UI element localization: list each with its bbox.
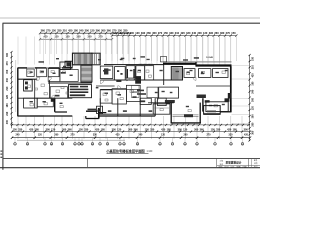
top dimension chain A line (40, 32, 131, 34)
labels above right wall (194, 57, 199, 59)
room left of big bay (153, 104, 170, 114)
right mid dark cluster (197, 95, 206, 99)
svg-text:270: 270 (226, 31, 231, 35)
lower middle room 2 (158, 98, 167, 105)
svg-text:150: 150 (164, 31, 169, 35)
lower middle room 1 (140, 98, 151, 104)
svg-text:120: 120 (135, 31, 140, 35)
title block cell borders (216, 158, 218, 167)
svg-text:比例: 比例 (254, 165, 258, 168)
svg-text:210: 210 (63, 28, 68, 32)
svg-text:360: 360 (152, 31, 157, 35)
left unit lower room 2 (37, 98, 53, 107)
svg-text:120: 120 (51, 128, 56, 131)
svg-text:120: 120 (38, 134, 43, 137)
svg-text:270: 270 (206, 134, 211, 137)
svg-text:240: 240 (79, 28, 84, 32)
svg-text:330: 330 (150, 128, 155, 131)
right bottom wall (220, 111, 232, 113)
entry canopy box (161, 57, 167, 62)
left unit lower room 1 (24, 98, 38, 108)
svg-text:150: 150 (6, 69, 9, 74)
svg-text:420: 420 (95, 128, 100, 131)
svg-text:3: 3 (120, 144, 121, 146)
left unit bathroom (24, 80, 33, 91)
svg-text:2: 2 (107, 144, 108, 146)
left unit lower dark corner (51, 98, 55, 102)
svg-text:390: 390 (96, 28, 101, 32)
svg-text:9: 9 (92, 144, 93, 146)
core labels cluster (69, 85, 92, 98)
svg-text:1: 1 (215, 144, 216, 146)
dark shaft west of kitchen (104, 68, 108, 74)
svg-text:300: 300 (85, 28, 90, 32)
bottom dimension chain 2 line (12, 131, 250, 133)
svg-text:210: 210 (6, 86, 9, 91)
left secondary extension line (15, 60, 17, 112)
svg-text:420: 420 (227, 128, 232, 131)
top dimension ticks chain A (39, 32, 41, 34)
entrance porch below stair (85, 116, 87, 119)
svg-text:260: 260 (214, 31, 219, 35)
bath room block C (126, 66, 135, 78)
svg-text:210: 210 (251, 65, 254, 70)
svg-text:260: 260 (194, 128, 199, 131)
svg-text:1: 1 (15, 144, 16, 146)
svg-text:240: 240 (192, 31, 197, 35)
svg-text:390: 390 (251, 114, 254, 119)
svg-text:300: 300 (178, 128, 183, 131)
corridor east wall (163, 65, 165, 85)
big south bay walls (170, 103, 172, 124)
svg-text:某某建筑设计: 某某建筑设计 (225, 160, 241, 164)
right mid rooms wall (196, 85, 231, 87)
svg-text:120: 120 (90, 28, 95, 32)
rooms west of stair upper (60, 62, 71, 70)
svg-text:7: 7 (172, 144, 173, 146)
right rooms row2 box (206, 102, 228, 112)
svg-text:150: 150 (52, 28, 57, 32)
room fixtures fine detail (28, 71, 31, 73)
top dimension chain A2 line (40, 38, 112, 40)
svg-text:120: 120 (161, 134, 166, 137)
svg-text:360: 360 (107, 28, 112, 32)
svg-text:420: 420 (44, 36, 49, 39)
svg-text:150: 150 (231, 31, 236, 35)
svg-text:330: 330 (93, 134, 98, 137)
right unit east corner block (228, 93, 232, 99)
svg-text:270: 270 (99, 36, 104, 39)
lower middle dark corner (165, 100, 175, 103)
drawing frame top border (3, 22, 261, 24)
grid extension lines above plan (39, 33, 41, 54)
svg-text:9: 9 (197, 144, 198, 146)
svg-text:120: 120 (203, 31, 208, 35)
svg-text:330: 330 (84, 128, 89, 131)
svg-text:240: 240 (16, 134, 21, 137)
stair tower lower flight (81, 65, 92, 82)
svg-text:210: 210 (175, 31, 180, 35)
room block D (136, 66, 145, 80)
left unit interior wall (18, 78, 38, 80)
title strip divider (87, 158, 89, 167)
svg-text:日期: 日期 (254, 162, 258, 165)
svg-text:300: 300 (251, 97, 254, 102)
bottom dimension chain 3 line (12, 137, 250, 139)
right rooms row2 corners (205, 100, 210, 102)
svg-text:390: 390 (209, 31, 214, 35)
zone top wall right of center (148, 102, 174, 104)
svg-text:330: 330 (216, 128, 221, 131)
kitchen room block A (100, 66, 113, 78)
svg-text:330: 330 (6, 78, 9, 83)
bottom chain 2 ticks (11, 131, 13, 133)
left margin tiny notes (0, 151, 2, 152)
svg-text:390: 390 (77, 36, 82, 39)
svg-text:3: 3 (45, 144, 46, 146)
svg-text:260: 260 (54, 134, 59, 137)
upper small text labels (39, 61, 45, 63)
column grid lines (17, 37, 19, 65)
svg-text:2: 2 (231, 144, 232, 146)
svg-text:1:100: 1:100 (147, 151, 153, 153)
duct shaft beside stair (65, 61, 72, 67)
svg-text:420: 420 (251, 73, 254, 78)
right stair hatch (171, 67, 182, 81)
svg-text:180: 180 (74, 28, 79, 32)
svg-text:8: 8 (185, 144, 186, 146)
svg-text:180: 180 (167, 128, 172, 131)
core top wall (48, 82, 92, 84)
svg-text:图号: 图号 (254, 159, 258, 162)
svg-text:360: 360 (41, 28, 46, 32)
room block E (145, 66, 154, 80)
right wing top wall thin rail (163, 61, 232, 63)
center lower verticals (99, 98, 101, 112)
svg-text:270: 270 (6, 61, 9, 66)
svg-text:240: 240 (6, 111, 9, 116)
svg-text:7: 7 (79, 144, 80, 146)
svg-text:240: 240 (251, 89, 254, 94)
svg-text:3: 3 (242, 144, 243, 146)
svg-text:420: 420 (68, 28, 73, 32)
right unit room 2 (213, 69, 229, 78)
left unit mid wall (18, 97, 73, 99)
svg-text:420: 420 (6, 94, 9, 99)
svg-text:180: 180 (66, 36, 71, 39)
svg-text:360: 360 (251, 130, 254, 135)
svg-text:300: 300 (6, 120, 9, 125)
door swing arcs (37, 78, 40, 81)
bottom dimension chain 1 line (12, 124, 250, 126)
svg-text:工程: 工程 (220, 160, 224, 163)
middle corridor wall (100, 79, 171, 81)
left unit outer west wall (17, 68, 19, 116)
title strip bottom line / frame bottom (0, 167, 260, 169)
svg-text:260: 260 (128, 128, 133, 131)
left dimension chain line (11, 52, 13, 128)
elevator shaft (135, 76, 141, 84)
svg-text:360: 360 (134, 128, 139, 131)
svg-text:260: 260 (184, 134, 189, 137)
bottom auxiliary line (17, 139, 125, 141)
svg-text:150: 150 (13, 128, 18, 131)
svg-text:2: 2 (27, 144, 28, 146)
right dimension ticks (249, 54, 251, 56)
center lower horizontal (99, 113, 155, 115)
svg-text:180: 180 (101, 128, 106, 131)
svg-text:150: 150 (79, 128, 84, 131)
svg-text:120: 120 (251, 106, 254, 111)
svg-text:260: 260 (147, 31, 152, 35)
svg-text:330: 330 (229, 134, 234, 137)
svg-text:270: 270 (70, 134, 75, 137)
svg-text:420: 420 (161, 128, 166, 131)
svg-text:名称: 名称 (220, 163, 224, 166)
svg-text:260: 260 (101, 28, 106, 32)
svg-text:180: 180 (186, 31, 191, 35)
svg-text:300: 300 (197, 31, 202, 35)
svg-text:420: 420 (116, 134, 121, 137)
svg-text:5: 5 (62, 144, 63, 146)
svg-text:6: 6 (160, 144, 161, 146)
drawing title underline (107, 152, 149, 154)
svg-text:300: 300 (46, 128, 51, 131)
drawing frame left border (2, 23, 4, 170)
svg-text:270: 270 (158, 31, 163, 35)
title strip top line (3, 157, 260, 159)
svg-text:120: 120 (183, 128, 188, 131)
svg-text:420: 420 (29, 128, 34, 131)
right unit room 1 (199, 69, 211, 78)
entrance wall segments (86, 110, 98, 112)
big bay railing lines (173, 114, 199, 116)
right wing top wall west part (163, 63, 196, 65)
right rooms window lines (207, 110, 216, 112)
svg-text:小高层住宅楼标准层平面图: 小高层住宅楼标准层平面图 (105, 148, 144, 153)
svg-text:420: 420 (180, 31, 185, 35)
svg-text:330: 330 (57, 28, 62, 32)
svg-text:360: 360 (68, 128, 73, 131)
right wing step connector (195, 62, 197, 67)
stair tower upper flight (73, 53, 93, 65)
entrance label marks (88, 109, 97, 111)
small south bay 2 (204, 106, 221, 115)
middle top wall (104, 64, 164, 66)
svg-text:180: 180 (6, 103, 9, 108)
svg-text:360: 360 (88, 36, 93, 39)
svg-text:330: 330 (169, 31, 174, 35)
svg-text:5: 5 (137, 144, 138, 146)
left unit top wall with windows (18, 67, 73, 69)
left unit room 3 (48, 68, 59, 77)
top dimension chain B line (112, 35, 237, 37)
middle rooms y87-98 box 1 (159, 87, 179, 98)
svg-text:330: 330 (18, 128, 23, 131)
small entry box with shaft (97, 106, 103, 113)
stair tower east compartment (92, 53, 100, 65)
right room between stair and step (184, 69, 195, 78)
right unit outer east wall (230, 66, 232, 112)
ramp hatch on middle wall (139, 64, 140, 66)
svg-text:420: 420 (244, 134, 249, 137)
svg-text:150: 150 (55, 36, 60, 39)
bottom chain 1 ticks (11, 124, 13, 126)
svg-text:330: 330 (251, 56, 254, 61)
scattered small labels (30, 72, 33, 73)
svg-text:180: 180 (251, 81, 254, 86)
right extension lines from building (232, 65, 250, 67)
center lower room marks (108, 110, 112, 112)
left unit lower interior wall (55, 111, 67, 113)
right dimension chain line (249, 55, 251, 141)
svg-text:4: 4 (124, 143, 125, 146)
svg-text:1: 1 (100, 144, 101, 146)
svg-text:8: 8 (82, 144, 83, 146)
svg-text:240: 240 (138, 134, 143, 137)
page top rule (0, 17, 260, 19)
bath room block B (115, 67, 126, 80)
left unit lower east wall (54, 98, 56, 112)
svg-text:12.345: 12.345 (206, 56, 213, 59)
middle rooms y87-98 marks (137, 90, 144, 92)
left unit interior verticals (34, 79, 36, 108)
room below-left of core (50, 87, 67, 99)
right wing top wall east part (196, 64, 232, 66)
svg-text:300: 300 (130, 31, 135, 35)
svg-text:120: 120 (117, 128, 122, 131)
grid bubbles row (14, 138, 16, 143)
right rooms row2 divider (202, 98, 204, 111)
svg-text:270: 270 (46, 28, 51, 32)
top dimension ticks chain A2 (39, 38, 41, 40)
left unit room 2 (37, 68, 47, 77)
svg-text:360: 360 (6, 52, 9, 57)
left unit bottom wall (18, 115, 73, 117)
svg-text:360: 360 (220, 31, 225, 35)
bottom chain 3 ticks (11, 137, 13, 139)
left dimension ticks (10, 51, 12, 53)
svg-text:6: 6 (75, 144, 76, 146)
svg-text:390: 390 (141, 31, 146, 35)
left unit room 1 (27, 69, 34, 77)
mid rooms row y86-103 (96, 85, 115, 87)
svg-text:300: 300 (244, 128, 249, 131)
top dimension ticks chain B (111, 35, 113, 37)
svg-text:4: 4 (51, 143, 52, 146)
svg-text:260: 260 (251, 122, 254, 127)
